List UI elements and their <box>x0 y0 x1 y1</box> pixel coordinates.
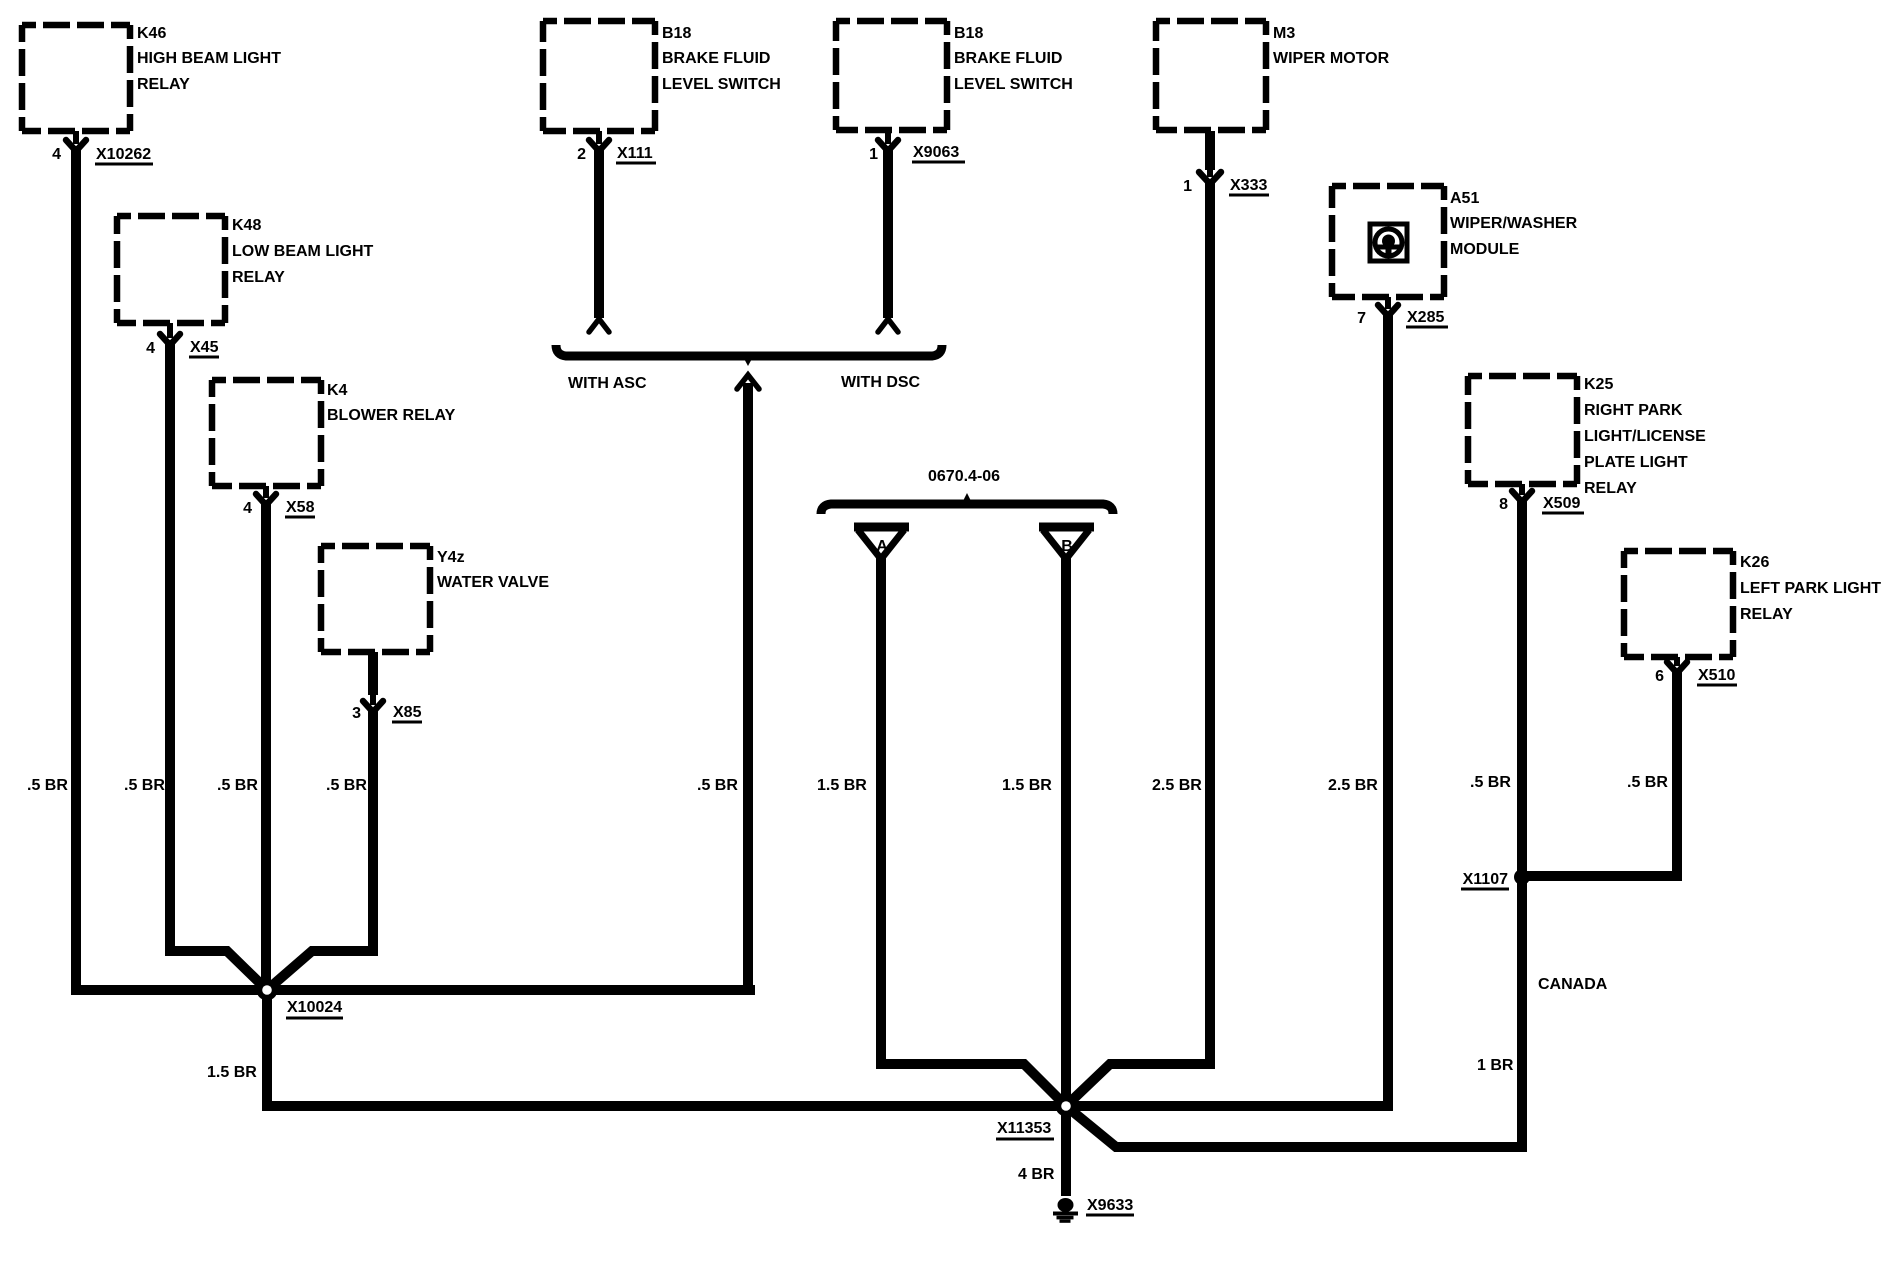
svg-text:CANADA: CANADA <box>1538 976 1608 993</box>
svg-text:MODULE: MODULE <box>1450 241 1520 258</box>
svg-text:M3: M3 <box>1273 25 1295 42</box>
svg-text:1 BR: 1 BR <box>1477 1057 1514 1074</box>
svg-text:4: 4 <box>52 146 61 163</box>
svg-text:X9633: X9633 <box>1087 1197 1133 1214</box>
svg-text:2.5 BR: 2.5 BR <box>1328 777 1378 794</box>
svg-text:.5 BR: .5 BR <box>217 777 258 794</box>
svg-text:X333: X333 <box>1230 177 1267 194</box>
svg-text:WATER VALVE: WATER VALVE <box>437 574 549 591</box>
svg-text:PLATE LIGHT: PLATE LIGHT <box>1584 454 1688 471</box>
svg-text:RELAY: RELAY <box>1740 606 1793 623</box>
svg-text:RELAY: RELAY <box>137 76 190 93</box>
svg-text:1.5 BR: 1.5 BR <box>1002 777 1052 794</box>
svg-text:.5 BR: .5 BR <box>697 777 738 794</box>
svg-text:X10024: X10024 <box>287 999 342 1016</box>
svg-text:.5 BR: .5 BR <box>124 777 165 794</box>
svg-text:X45: X45 <box>190 339 219 356</box>
svg-text:8: 8 <box>1499 496 1508 513</box>
svg-text:6: 6 <box>1655 668 1664 685</box>
svg-text:WITH ASC: WITH ASC <box>568 375 647 392</box>
svg-text:X509: X509 <box>1543 495 1580 512</box>
svg-text:.5 BR: .5 BR <box>1470 774 1511 791</box>
svg-text:X285: X285 <box>1407 309 1444 326</box>
svg-text:X111: X111 <box>617 145 653 162</box>
svg-text:0670.4-06: 0670.4-06 <box>928 468 1000 485</box>
svg-text:HIGH BEAM LIGHT: HIGH BEAM LIGHT <box>137 50 281 67</box>
svg-text:Y4z: Y4z <box>437 549 465 566</box>
svg-text:X10262: X10262 <box>96 146 151 163</box>
svg-text:LEFT PARK LIGHT: LEFT PARK LIGHT <box>1740 580 1881 597</box>
svg-text:LOW BEAM LIGHT: LOW BEAM LIGHT <box>232 243 374 260</box>
svg-text:1: 1 <box>869 146 878 163</box>
svg-text:WITH DSC: WITH DSC <box>841 374 921 391</box>
svg-text:K25: K25 <box>1584 376 1613 393</box>
svg-text:WIPER MOTOR: WIPER MOTOR <box>1273 50 1390 67</box>
svg-text:B: B <box>1061 538 1073 555</box>
svg-text:K4: K4 <box>327 382 348 399</box>
svg-text:RELAY: RELAY <box>1584 480 1637 497</box>
svg-text:K48: K48 <box>232 217 261 234</box>
svg-text:4 BR: 4 BR <box>1018 1166 1055 1183</box>
svg-text:.5 BR: .5 BR <box>326 777 367 794</box>
svg-text:.5 BR: .5 BR <box>27 777 68 794</box>
svg-text:7: 7 <box>1357 310 1366 327</box>
svg-text:3: 3 <box>352 705 361 722</box>
svg-text:1.5 BR: 1.5 BR <box>207 1064 257 1081</box>
svg-text:.5 BR: .5 BR <box>1627 774 1668 791</box>
svg-text:2.5 BR: 2.5 BR <box>1152 777 1202 794</box>
svg-text:A51: A51 <box>1450 190 1479 207</box>
svg-text:WIPER/WASHER: WIPER/WASHER <box>1450 215 1578 232</box>
svg-text:X11353: X11353 <box>997 1120 1051 1137</box>
svg-text:2: 2 <box>577 146 586 163</box>
svg-text:K26: K26 <box>1740 554 1769 571</box>
svg-text:B18: B18 <box>662 25 691 42</box>
svg-text:BRAKE FLUID: BRAKE FLUID <box>954 50 1062 67</box>
svg-text:X9063: X9063 <box>913 144 959 161</box>
svg-text:LEVEL SWITCH: LEVEL SWITCH <box>662 76 781 93</box>
svg-text:X58: X58 <box>286 499 315 516</box>
svg-text:X85: X85 <box>393 704 422 721</box>
svg-text:4: 4 <box>146 340 155 357</box>
svg-text:4: 4 <box>243 500 252 517</box>
svg-text:B18: B18 <box>954 25 983 42</box>
svg-text:A: A <box>876 538 888 555</box>
svg-text:RELAY: RELAY <box>232 269 285 286</box>
svg-text:K46: K46 <box>137 25 166 42</box>
svg-text:LEVEL SWITCH: LEVEL SWITCH <box>954 76 1073 93</box>
svg-text:LIGHT/LICENSE: LIGHT/LICENSE <box>1584 428 1706 445</box>
svg-text:1: 1 <box>1183 178 1192 195</box>
svg-text:X510: X510 <box>1698 667 1735 684</box>
svg-text:X1107: X1107 <box>1463 871 1508 888</box>
svg-text:BRAKE FLUID: BRAKE FLUID <box>662 50 770 67</box>
svg-text:RIGHT PARK: RIGHT PARK <box>1584 402 1683 419</box>
svg-text:BLOWER RELAY: BLOWER RELAY <box>327 407 456 424</box>
svg-text:1.5 BR: 1.5 BR <box>817 777 867 794</box>
